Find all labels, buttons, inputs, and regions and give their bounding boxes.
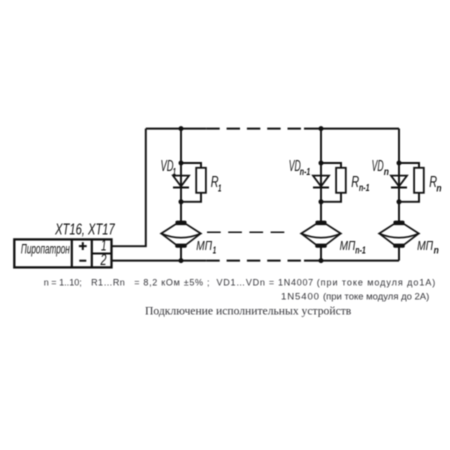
label VDn-1: [289, 158, 311, 178]
svg-text:n-1: n-1: [300, 166, 311, 178]
node top bus branch 2: [319, 126, 324, 131]
plus sign: [79, 242, 87, 250]
node branch 3 parallel bottom: [397, 199, 402, 204]
label VD1: [161, 158, 177, 178]
svg-text:= 8,2 кОм ±5% ;: = 8,2 кОм ±5% ;: [134, 278, 209, 288]
label Rn: [429, 174, 441, 194]
wire branch 1 vertical: [180, 129, 182, 221]
wire bottom bus dashed: [206, 260, 302, 262]
svg-text:n: n: [384, 166, 389, 178]
wire branch 1 lower vertical: [180, 248, 182, 261]
label МП1: [196, 238, 216, 257]
node bottom bus branch 1: [179, 258, 184, 263]
svg-text:1: 1: [173, 166, 176, 178]
svg-text:(при токе модуля до1А): (при токе модуля до1А): [317, 278, 436, 288]
dashed continuation between MP1 and MPn-1: [207, 231, 286, 233]
siren МПn-1: [301, 221, 341, 248]
wire branch 1 resistor loop: [181, 163, 201, 202]
diode VDn: [391, 176, 407, 188]
svg-text:МП: МП: [196, 238, 212, 253]
svg-text:МП: МП: [417, 238, 433, 253]
svg-text:Пиропатрон: Пиропатрон: [21, 241, 70, 257]
resistor R1 body: [196, 168, 206, 193]
svg-text:МП: МП: [340, 238, 356, 253]
svg-text:n: n: [434, 246, 439, 257]
wire bottom bus left solid (pin 2 lead): [112, 260, 207, 262]
svg-text:2: 2: [100, 252, 107, 269]
siren МП1: [161, 221, 201, 248]
svg-text:VD1…VDn = 1N4007: VD1…VDn = 1N4007: [217, 278, 314, 288]
svg-text:Подключение исполнительных уст: Подключение исполнительных устройств: [145, 304, 352, 318]
node branch 3 parallel top: [397, 161, 402, 166]
svg-text:VD: VD: [372, 158, 384, 175]
svg-text:R: R: [351, 174, 359, 191]
wire top bus dashed: [206, 128, 302, 130]
label VDn: [372, 158, 389, 178]
resistor Rn body: [414, 168, 424, 193]
svg-text:n = 1..10;: n = 1..10;: [44, 278, 82, 288]
wire branch 2 resistor loop: [321, 163, 341, 202]
wire branch 3 lower vertical: [398, 248, 400, 261]
wire branch 2 vertical: [320, 129, 322, 221]
diode VDn-1: [313, 176, 329, 188]
wire bottom bus right solid: [304, 260, 399, 262]
label R1: [211, 174, 222, 194]
node branch 1 parallel top: [179, 161, 184, 166]
svg-text:(при токе модуля до 2А): (при токе модуля до 2А): [323, 292, 429, 303]
node branch 1 parallel bottom: [179, 199, 184, 204]
node top bus branch 1: [179, 126, 184, 131]
node branch 2 parallel bottom: [319, 199, 324, 204]
wire pin1 lead and riser: [112, 129, 146, 247]
connector box divider 2: [91, 239, 93, 267]
wire top bus left solid: [146, 128, 207, 130]
svg-text:R1…Rn: R1…Rn: [91, 278, 125, 288]
wire branch 3 resistor loop: [399, 163, 419, 202]
svg-text:n: n: [436, 182, 441, 194]
svg-text:n-1: n-1: [359, 182, 370, 194]
connector box divider 1: [71, 239, 73, 267]
node branch 2 parallel top: [319, 161, 324, 166]
svg-text:1: 1: [213, 246, 217, 257]
siren МПn: [379, 221, 419, 248]
node bottom bus branch 2: [319, 258, 324, 263]
label МПn: [417, 238, 439, 257]
svg-text:1N5400: 1N5400: [281, 292, 319, 303]
connector box pin divider: [92, 252, 112, 254]
svg-text:VD: VD: [161, 158, 174, 175]
svg-text:1: 1: [218, 182, 221, 194]
wire branch 2 lower vertical: [320, 248, 322, 261]
minus sign: [79, 260, 86, 262]
label МПn-1: [340, 238, 367, 256]
label Rn-1: [351, 174, 369, 194]
diode VD1: [173, 176, 189, 188]
svg-text:ХТ16, ХТ17: ХТ16, ХТ17: [54, 222, 115, 239]
wire branch 3 vertical: [398, 129, 400, 221]
resistor Rn-1 body: [336, 168, 346, 193]
connector box outline: [14, 239, 111, 267]
svg-text:n-1: n-1: [355, 245, 366, 256]
wire top bus right solid: [304, 128, 399, 130]
